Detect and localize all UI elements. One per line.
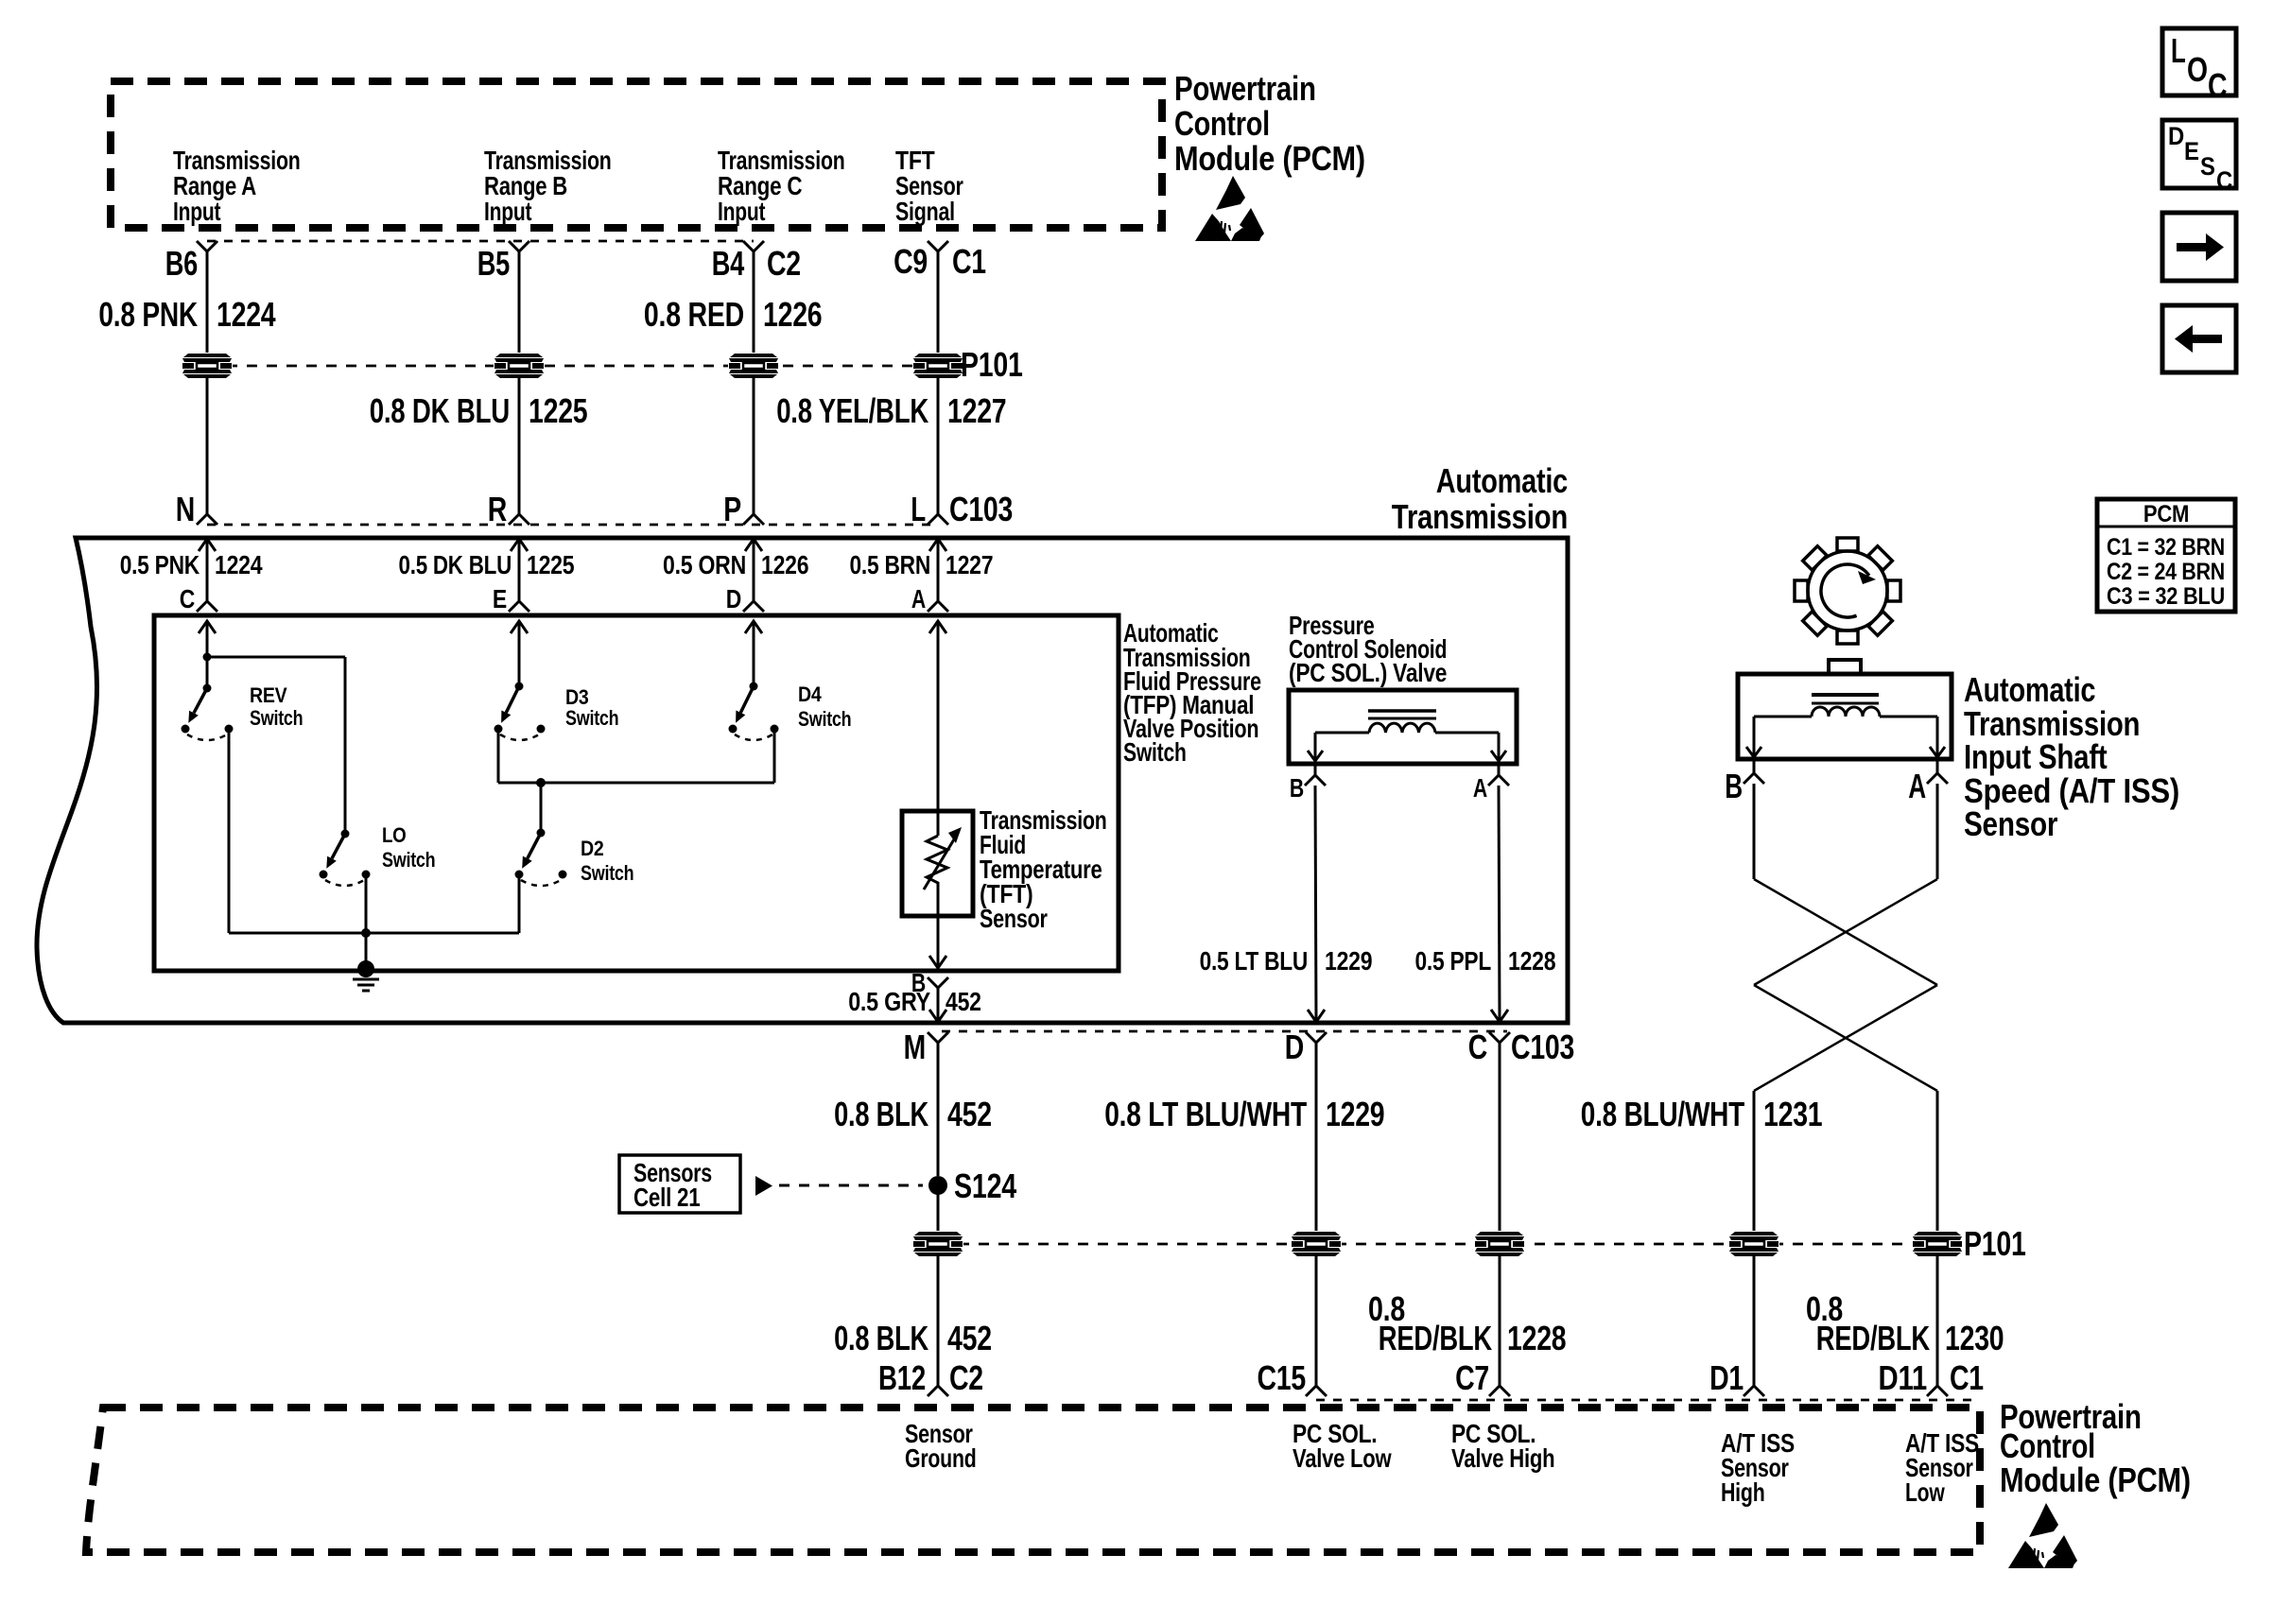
pin C15	[1258, 1358, 1327, 1397]
arrow wire signal A inside TFP	[199, 621, 216, 657]
svg-text:Module (PCM): Module (PCM)	[1174, 139, 1365, 178]
svg-text:1225: 1225	[529, 391, 588, 430]
svg-text:0.5 LT BLU: 0.5 LT BLU	[1200, 946, 1308, 976]
svg-text:Sensor: Sensor	[980, 904, 1048, 933]
svg-text:REV: REV	[250, 683, 287, 707]
svg-text:C103: C103	[949, 490, 1013, 528]
wire label 0.8 YEL/BLK 1227	[776, 391, 1006, 430]
svg-text:Sensor: Sensor	[1964, 804, 2057, 843]
junction node ground bus	[361, 928, 371, 938]
svg-text:1231: 1231	[1763, 1095, 1823, 1133]
svg-text:1224: 1224	[215, 550, 263, 579]
TFT sensor (variable resistor)	[902, 811, 973, 916]
svg-text:Low: Low	[1905, 1477, 1945, 1507]
svg-text:S124: S124	[954, 1166, 1016, 1205]
arrow wire signal B inside TFP	[511, 621, 528, 686]
label D2 Switch	[581, 837, 633, 885]
svg-text:N: N	[176, 490, 195, 528]
D4 switch	[729, 682, 779, 741]
svg-text:C1 = 32 BRN: C1 = 32 BRN	[2107, 534, 2225, 561]
DESC reference box	[2162, 120, 2236, 195]
wire label 0.8 RED/BLK 1230	[1806, 1289, 2004, 1357]
wire label 0.8 RED 1226	[644, 295, 823, 334]
wire 1226 PCM B4 to P101	[753, 250, 755, 354]
label Powertrain Control Module (PCM) top	[1174, 69, 1365, 178]
svg-text:0.5 GRY: 0.5 GRY	[848, 987, 930, 1016]
PCM connector legend box	[2097, 499, 2235, 612]
svg-text:Switch: Switch	[1123, 737, 1187, 767]
svg-text:Control: Control	[2000, 1426, 2095, 1465]
svg-text:Powertrain: Powertrain	[1174, 69, 1316, 108]
wire D to P101	[1315, 1043, 1318, 1234]
svg-text:Ground: Ground	[905, 1443, 977, 1473]
svg-text:High: High	[1721, 1477, 1765, 1507]
svg-text:D: D	[726, 584, 741, 613]
PCM module box (bottom, dashed)	[86, 1408, 1980, 1552]
pin B4	[712, 241, 764, 283]
wire label 0.8 PNK 1224	[98, 295, 275, 334]
svg-text:Input: Input	[718, 197, 765, 226]
wire REV switch to ground bus	[229, 729, 519, 933]
PCM module box (top, dashed)	[111, 81, 1162, 228]
svg-text:RED/BLK: RED/BLK	[1816, 1319, 1930, 1357]
svg-text:D11: D11	[1879, 1358, 1928, 1397]
arrow wire TFT signal inside TFP	[929, 621, 946, 811]
pin N	[176, 490, 217, 528]
svg-text:Automatic: Automatic	[1964, 670, 2095, 709]
svg-text:0.8 RED: 0.8 RED	[644, 295, 744, 334]
pin A of ISS sensor	[1908, 760, 1948, 805]
svg-text:Input: Input	[173, 197, 220, 226]
svg-text:Switch: Switch	[250, 706, 303, 730]
svg-text:452: 452	[947, 1095, 992, 1133]
svg-text:1228: 1228	[1507, 1319, 1566, 1357]
svg-text:452: 452	[946, 987, 981, 1016]
wire D4 to bus	[773, 729, 776, 783]
pin B12 connector C2 bottom	[878, 1358, 983, 1397]
pin C of TFP switch	[180, 584, 217, 613]
PC solenoid valve box	[1289, 690, 1517, 764]
wire label 0.8 BLK 452 upper	[834, 1095, 992, 1133]
gear icon A/T ISS	[1795, 538, 1900, 644]
svg-text:Switch: Switch	[565, 706, 618, 730]
wire 1227 P101 to C103	[937, 378, 940, 515]
svg-text:0.8 BLK: 0.8 BLK	[834, 1095, 928, 1133]
svg-text:0.8 YEL/BLK: 0.8 YEL/BLK	[776, 391, 928, 430]
svg-text:Transmission: Transmission	[1392, 497, 1568, 536]
wire label 0.5 PPL 1228	[1415, 946, 1556, 976]
svg-text:C2 = 24 BRN: C2 = 24 BRN	[2107, 559, 2225, 585]
svg-text:C1: C1	[1950, 1358, 1984, 1397]
svg-text:0.5 ORN: 0.5 ORN	[663, 550, 746, 579]
svg-text:1227: 1227	[946, 550, 993, 579]
svg-text:P101: P101	[961, 345, 1023, 384]
connector C103 dashed face line top	[207, 524, 938, 527]
arrow wire 1225 into transmission	[511, 539, 528, 598]
svg-text:C103: C103	[1511, 1028, 1574, 1066]
pin B of PC solenoid	[1290, 762, 1326, 803]
wire label 0.8 BLK 452 lower	[834, 1319, 992, 1357]
svg-text:C2: C2	[767, 244, 801, 283]
wire sensor ground to C103 M	[929, 987, 946, 1022]
pin B5	[477, 241, 529, 283]
svg-text:1230: 1230	[1945, 1319, 2004, 1357]
ground symbol TFP switch	[353, 933, 379, 991]
svg-text:D: D	[1285, 1028, 1304, 1066]
connector dashed face line bottom PCM	[1316, 1399, 1971, 1402]
junction node D3/D4 to D2	[536, 778, 546, 833]
arrow wire 1227 into transmission	[929, 539, 946, 598]
svg-text:D2: D2	[581, 837, 604, 860]
label TFT Sensor Signal	[895, 146, 963, 226]
svg-text:0.5 PNK: 0.5 PNK	[120, 550, 200, 579]
wire TFT sensor to pin B	[929, 916, 946, 968]
svg-text:1227: 1227	[947, 391, 1006, 430]
twisted pair ISS wires	[1754, 784, 1937, 1234]
wire PC solenoid high to C103 C	[1491, 786, 1508, 1022]
svg-text:C: C	[180, 584, 195, 613]
arrow wire 1224 into transmission	[199, 539, 216, 598]
svg-text:Valve Low: Valve Low	[1293, 1443, 1392, 1473]
svg-text:Input Shaft: Input Shaft	[1964, 737, 2108, 776]
label Transmission Range B Input	[484, 146, 612, 226]
pin L	[911, 490, 948, 528]
pin D of TFP switch	[726, 584, 764, 613]
wire C to P101	[1499, 1043, 1501, 1234]
label A/T ISS Sensor High	[1721, 1428, 1795, 1507]
svg-text:P: P	[723, 490, 741, 528]
pin M	[904, 1028, 948, 1066]
svg-text:C: C	[1468, 1028, 1488, 1066]
label Pressure Control Solenoid (PC SOL.) Valve	[1289, 611, 1447, 687]
label Automatic Transmission	[1392, 461, 1568, 536]
svg-text:Cell 21: Cell 21	[633, 1183, 700, 1212]
D3 switch	[495, 682, 546, 741]
svg-text:1229: 1229	[1326, 1095, 1384, 1133]
svg-text:0.8 DK BLU: 0.8 DK BLU	[370, 391, 510, 430]
wire D2 to ground bus	[518, 874, 521, 933]
svg-text:A: A	[911, 584, 926, 613]
wire label 0.5 BRN 1227	[850, 550, 994, 579]
pin R	[488, 490, 529, 528]
svg-text:B6: B6	[165, 244, 198, 283]
arrow wire signal C inside TFP	[745, 621, 762, 686]
label REV Switch	[250, 683, 303, 730]
wire PC solenoid low to C103 D	[1308, 786, 1325, 1022]
LOC reference box	[2162, 28, 2236, 105]
A/T ISS sensor coil	[1746, 695, 1945, 757]
pin E of TFP switch	[493, 584, 529, 613]
svg-text:C15: C15	[1258, 1358, 1307, 1397]
svg-text:Automatic: Automatic	[1436, 461, 1568, 500]
svg-text:Control: Control	[1174, 104, 1270, 143]
connector C103 dashed face line bottom	[942, 1030, 1507, 1033]
pin A of PC solenoid	[1473, 762, 1509, 803]
arrow wire 1226 into transmission	[745, 539, 762, 598]
wire 1224 P101 to C103	[206, 378, 209, 515]
label Sensor Ground	[905, 1419, 977, 1473]
wire label 0.8 BLU/WHT 1231	[1581, 1095, 1823, 1133]
svg-text:S: S	[2200, 152, 2215, 181]
ESD sensitivity symbol top	[1195, 176, 1264, 241]
svg-text:1229: 1229	[1325, 946, 1372, 976]
svg-text:0.8 PNK: 0.8 PNK	[98, 295, 198, 334]
wire 1225 P101 to C103	[518, 378, 521, 515]
label Automatic Transmission Fluid Pressure (TFP) Manual Valve Position Switch	[1123, 618, 1261, 767]
label Transmission Fluid Temperature (TFT) Sensor	[980, 805, 1107, 933]
svg-text:D1: D1	[1709, 1358, 1744, 1397]
svg-text:E: E	[493, 584, 507, 613]
D2 switch	[515, 829, 567, 887]
junction node wire A to LO branch	[203, 653, 346, 835]
svg-text:L: L	[2171, 31, 2186, 70]
pin C bottom	[1468, 1028, 1510, 1066]
svg-text:C1: C1	[952, 242, 986, 281]
label PC SOL. Valve Low	[1293, 1419, 1392, 1473]
wire label 0.8 LT BLU/WHT 1229	[1104, 1095, 1384, 1133]
svg-text:R: R	[488, 490, 508, 528]
svg-text:Switch: Switch	[581, 861, 633, 885]
wire label 0.5 DK BLU 1225	[399, 550, 575, 579]
splice S124	[928, 1166, 1016, 1205]
svg-text:Module (PCM): Module (PCM)	[2000, 1460, 2191, 1499]
label D3 Switch	[565, 685, 618, 730]
svg-text:L: L	[911, 490, 926, 528]
wire D3 to D2 bus	[498, 729, 774, 783]
label D4 Switch	[798, 682, 851, 731]
svg-text:LO: LO	[382, 823, 407, 847]
svg-text:C: C	[2216, 166, 2232, 195]
connector C103 label top	[949, 490, 1013, 528]
pin B6	[165, 241, 217, 283]
svg-text:E: E	[2184, 137, 2199, 165]
pin B of ISS sensor	[1725, 760, 1764, 805]
wire P101 to B12 sensor ground	[937, 1254, 940, 1376]
wire P101 to C7	[1499, 1254, 1501, 1376]
svg-text:B: B	[1290, 773, 1304, 803]
wire P101 to C15	[1315, 1254, 1318, 1376]
svg-text:452: 452	[947, 1319, 992, 1357]
label Automatic Transmission Input Shaft Speed (A/T ISS) Sensor	[1964, 670, 2179, 843]
Automatic Transmission box with torn left edge	[37, 538, 1568, 1023]
wire label 0.8 RED/BLK 1228	[1368, 1289, 1566, 1357]
connector C2 dashed face line	[207, 240, 754, 243]
svg-text:Switch: Switch	[798, 707, 851, 731]
label A/T ISS Sensor Low	[1905, 1428, 1979, 1507]
wire label 0.5 PNK 1224	[120, 550, 263, 579]
connector C2 label	[767, 244, 801, 283]
wire label 0.5 LT BLU 1229	[1200, 946, 1373, 976]
pin B of TFP switch	[911, 968, 948, 1001]
svg-text:0.5 PPL: 0.5 PPL	[1415, 946, 1492, 976]
wire 1225 PCM B5 to P101	[518, 250, 521, 354]
wire S124 to P101	[937, 1185, 940, 1234]
REV switch	[182, 684, 234, 741]
pin D bottom	[1285, 1028, 1327, 1066]
svg-text:0.8 BLK: 0.8 BLK	[834, 1319, 928, 1357]
wire sensor ground M to S124	[937, 1043, 940, 1176]
TFP manual valve position switch box	[154, 615, 1119, 971]
svg-text:0.5 DK BLU: 0.5 DK BLU	[399, 550, 512, 579]
inline connector P101 top row	[182, 345, 1023, 384]
wire LO switch to ground junction	[365, 874, 368, 933]
label Powertrain Control Module (PCM) bottom	[2000, 1397, 2191, 1499]
pin P	[723, 490, 764, 528]
svg-text:Input: Input	[484, 197, 531, 226]
wire label 0.8 DK BLU 1225	[370, 391, 588, 430]
svg-text:C3 = 32 BLU: C3 = 32 BLU	[2107, 583, 2225, 610]
label Transmission Range A Input	[173, 146, 301, 226]
label Transmission Range C Input	[718, 146, 845, 226]
A/T ISS sensor box	[1738, 660, 1952, 759]
connector C103 label bottom	[1511, 1028, 1574, 1066]
svg-text:B12: B12	[878, 1358, 926, 1397]
svg-text:B: B	[1725, 767, 1743, 805]
svg-text:M: M	[904, 1028, 926, 1066]
svg-text:A: A	[1473, 773, 1487, 803]
svg-text:B5: B5	[477, 244, 511, 283]
wire P101 to D11	[1936, 1254, 1939, 1376]
svg-text:C2: C2	[949, 1358, 983, 1397]
svg-text:PCM: PCM	[2143, 501, 2189, 527]
pin C7	[1455, 1358, 1510, 1397]
svg-text:Switch: Switch	[382, 848, 435, 872]
svg-text:(PC SOL.) Valve: (PC SOL.) Valve	[1289, 658, 1447, 687]
svg-text:C7: C7	[1455, 1358, 1489, 1397]
svg-text:C: C	[2208, 66, 2228, 105]
inline connector P101 bottom row	[912, 1224, 2026, 1263]
pin D11 connector C1 bottom	[1879, 1358, 1985, 1397]
svg-text:A: A	[1908, 767, 1926, 805]
LO switch	[320, 830, 371, 887]
svg-text:0.8 LT BLU/WHT: 0.8 LT BLU/WHT	[1104, 1095, 1307, 1133]
svg-text:Valve High: Valve High	[1451, 1443, 1554, 1473]
wire label 0.5 ORN 1226	[663, 550, 808, 579]
svg-text:0.8 BLU/WHT: 0.8 BLU/WHT	[1581, 1095, 1744, 1133]
forward arrow box	[2162, 213, 2236, 281]
pin C9 connector C1	[894, 241, 986, 281]
svg-text:1226: 1226	[763, 295, 822, 334]
svg-text:O: O	[2187, 50, 2208, 89]
ESD sensitivity symbol bottom	[2008, 1503, 2077, 1568]
wire 1227 PCM C9 to P101	[937, 250, 940, 354]
svg-text:1228: 1228	[1508, 946, 1555, 976]
svg-text:1225: 1225	[527, 550, 574, 579]
svg-text:1226: 1226	[761, 550, 808, 579]
svg-text:C9: C9	[894, 242, 928, 281]
reference arrow to S124	[755, 1176, 923, 1196]
svg-text:1224: 1224	[217, 295, 276, 334]
wire 1226 P101 to C103	[753, 378, 755, 515]
wire label 0.5 GRY 452	[848, 987, 981, 1016]
back arrow box	[2162, 305, 2236, 372]
label PC SOL. Valve High	[1451, 1419, 1554, 1473]
pin A of TFP switch	[911, 584, 948, 613]
svg-text:D4: D4	[798, 682, 822, 706]
svg-text:RED/BLK: RED/BLK	[1379, 1319, 1492, 1357]
svg-text:P101: P101	[1964, 1224, 2026, 1263]
svg-text:0.5 BRN: 0.5 BRN	[850, 550, 931, 579]
svg-text:D: D	[2168, 122, 2184, 150]
Sensors Cell 21 reference box	[619, 1155, 740, 1213]
PC solenoid coil	[1308, 711, 1506, 761]
wire 1224 PCM B6 to P101	[206, 250, 209, 354]
wire P101 to D1	[1753, 1254, 1756, 1376]
label LO Switch	[382, 823, 435, 872]
svg-text:B4: B4	[712, 244, 745, 283]
svg-text:Signal: Signal	[895, 197, 955, 226]
pin D1	[1709, 1358, 1764, 1397]
